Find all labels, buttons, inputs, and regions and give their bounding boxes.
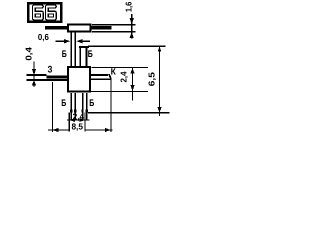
collector lead top line (91, 74, 108, 76)
emitter lead thick bar (47, 76, 67, 79)
lead base upper B cap (79, 46, 89, 48)
extension line body bottom right (2,4) (90, 91, 148, 92)
dimension 6,5 arrow up (158, 46, 162, 51)
dimension 1,6 line (131, 14, 132, 39)
side view body (68, 25, 91, 32)
svg-text:Б: Б (62, 49, 67, 60)
svg-text:З: З (48, 64, 53, 75)
emitter lead top thin line (26, 74, 46, 76)
dimension 0,6 right tail (81, 41, 90, 42)
dimension 0,4 line (33, 62, 34, 88)
extension line body top right (2,4) (92, 67, 149, 68)
svg-text:0,4: 0,4 (24, 47, 34, 61)
extension line 8,5 left (52, 82, 53, 132)
lead base upper B line1 (80, 48, 82, 66)
side view left lead (45, 26, 67, 29)
svg-text:6,5: 6,5 (147, 72, 157, 86)
dimension 8,5 arrow right (105, 128, 111, 132)
emitter lead bottom line (26, 79, 67, 81)
dimension 8,5 line left (48, 129, 69, 130)
extension line top (1,6) (92, 24, 136, 25)
collector lead bottom line (91, 78, 111, 80)
dimension 6,5 arrow down (157, 107, 161, 113)
dimension 2,4 bottom arrow right (80, 118, 86, 122)
lead base upper B line2 (86, 48, 88, 66)
dimension 2,4 bottom extension line right (84, 113, 85, 132)
dimension 2,4 bottom extension line left (69, 113, 70, 132)
lead base upper A line1 (71, 33, 73, 67)
svg-text:Б: Б (61, 98, 66, 109)
lead base lower C line2 (75, 93, 77, 120)
dimension 2,4 bottom line (67, 119, 90, 120)
extension line top (6,5) (88, 46, 165, 47)
svg-text:0,6: 0,6 (38, 32, 49, 42)
dimension 1,6 arrow down (130, 18, 134, 24)
dimension 8,5 line right (84, 129, 112, 130)
svg-text:Б: Б (89, 98, 94, 109)
dimension 0,4 arrow down (32, 69, 36, 75)
plan view body (68, 67, 90, 92)
collector lead tip diagonal (108, 74, 112, 78)
svg-text:8,5: 8,5 (71, 121, 83, 131)
svg-text:2,4: 2,4 (119, 71, 129, 82)
lead base lower C line1 (71, 93, 73, 120)
svg-text:1,6: 1,6 (124, 1, 134, 12)
dimension 0,4 arrow up (32, 80, 36, 86)
page badge 66 (28, 3, 61, 22)
dimension 1,6 arrow up (130, 32, 134, 38)
extension line bottom (6,5) (88, 112, 170, 113)
side view right lead (92, 26, 112, 29)
extension line 8,5 right (110, 80, 111, 132)
dimension 0,6 left tail (56, 41, 66, 42)
dimension 2,4 right arrow up (130, 68, 134, 74)
dimension 2,4 right arrow down (130, 85, 134, 91)
dimension 8,5 arrow left (52, 128, 58, 132)
lead base upper A line2 (75, 33, 77, 67)
dimension 0,6 left arrow (64, 39, 70, 43)
extension line bottom (1,6) (92, 31, 136, 32)
dimension 2,4 bottom arrow left (70, 118, 76, 122)
dimension 6,5 line (159, 46, 160, 116)
svg-text:Б: Б (88, 49, 93, 60)
lead base lower D line1 (82, 93, 84, 120)
dimension 0,6 right arrow (76, 39, 82, 43)
lead base lower D line2 (86, 93, 88, 120)
dimension 2,4 right line (132, 67, 133, 100)
